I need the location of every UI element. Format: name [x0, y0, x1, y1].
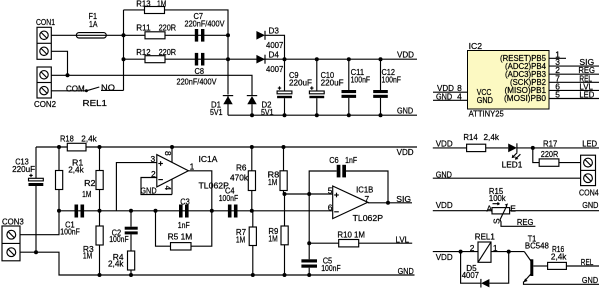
junction GND-C10	[315, 113, 319, 117]
svg-text:100nF: 100nF	[219, 193, 239, 203]
svg-text:IC1B: IC1B	[356, 185, 374, 195]
svg-text:GND: GND	[582, 200, 598, 210]
svg-text:100nF: 100nF	[351, 75, 371, 85]
svg-text:R10 1M: R10 1M	[337, 229, 365, 239]
ic IC2 ATTINY25	[468, 41, 550, 119]
resistor R12	[136, 47, 176, 63]
junction row-R2R3	[98, 209, 102, 213]
wire R16 to REL	[566, 257, 599, 267]
svg-text:LED1: LED1	[502, 160, 523, 170]
svg-text:TL062P: TL062P	[199, 180, 230, 190]
wire R14 to LED	[486, 147, 509, 149]
svg-text:REL1: REL1	[475, 232, 495, 242]
svg-text:R2: R2	[84, 178, 96, 188]
junction C7 node	[226, 33, 230, 37]
junction relay-D5 left	[459, 250, 463, 254]
svg-text:CON1: CON1	[36, 17, 55, 27]
pin 7 PB2 wire REL	[549, 73, 599, 83]
svg-text:100nF: 100nF	[109, 234, 129, 244]
junction C13-CON3pin2	[34, 250, 38, 254]
wire lower VDD rail	[36, 146, 417, 148]
junction LED-R17	[531, 146, 535, 150]
connector CON1	[36, 17, 55, 59]
wire LED to LED net	[517, 147, 599, 149]
svg-text:R5 1M: R5 1M	[168, 232, 193, 242]
svg-text:LED: LED	[579, 90, 594, 100]
resistor R4	[108, 251, 135, 275]
wire CON3 pin1 up to row	[20, 211, 59, 235]
svg-text:IC2: IC2	[469, 41, 483, 51]
zener D2	[247, 89, 274, 118]
resistor R3	[83, 211, 103, 275]
junction row-R6R7	[250, 209, 254, 213]
svg-text:REL: REL	[581, 257, 594, 267]
svg-text:IC1A: IC1A	[199, 154, 218, 164]
svg-text:R14: R14	[463, 132, 478, 142]
resistor R18	[60, 133, 98, 151]
pin 6 PB1 wire LVL	[549, 81, 599, 91]
wire IC1A pin4	[171, 179, 173, 194]
capacitor C9 electrolytic	[277, 59, 312, 115]
svg-text:2: 2	[470, 243, 475, 253]
svg-text:A: A	[487, 204, 493, 214]
svg-text:220uF: 220uF	[12, 164, 35, 174]
wire CON1 pin2 down to neutral	[51, 51, 67, 75]
svg-text:220R: 220R	[159, 22, 177, 32]
junction GND-R9	[283, 273, 287, 277]
svg-text:4007: 4007	[462, 270, 480, 280]
pin 1 PB5 stub	[549, 49, 566, 59]
junction rail-R8	[282, 145, 286, 149]
junction row-C2	[129, 209, 133, 213]
SECTION: power supply top	[34, 0, 417, 117]
svg-text:220uF: 220uF	[289, 78, 312, 88]
resistor R2	[82, 147, 103, 211]
svg-text:REL1: REL1	[83, 98, 108, 108]
svg-text:4007: 4007	[266, 64, 284, 74]
svg-text:VDD: VDD	[397, 147, 414, 157]
svg-text:2,4k: 2,4k	[551, 251, 567, 261]
wire GND row to CON4	[433, 170, 581, 180]
connector CON2	[34, 67, 56, 109]
wire IC1A pin3	[116, 163, 156, 211]
junction GND-C11	[347, 113, 351, 117]
svg-text:D4: D4	[269, 49, 280, 59]
wire IC1B output SIG	[368, 194, 412, 205]
capacitor C12	[373, 59, 401, 115]
svg-text:220R: 220R	[541, 149, 559, 159]
capacitor C2	[109, 211, 138, 251]
svg-text:5: 5	[328, 186, 333, 196]
svg-text:2,4k: 2,4k	[108, 259, 124, 269]
wire VDD pot row	[433, 200, 492, 211]
svg-text:R17: R17	[543, 139, 558, 149]
wire neutral row	[51, 75, 252, 88]
resistor R10 LVL	[309, 229, 412, 247]
diode D3	[256, 26, 283, 51]
svg-text:100nF: 100nF	[382, 75, 402, 85]
wire sensor row	[59, 210, 333, 212]
wire R12 row	[124, 58, 229, 60]
resistor R11	[136, 22, 176, 38]
wire VDD rail	[228, 58, 417, 60]
svg-text:GND: GND	[140, 186, 156, 196]
capacitor C6 feedback	[309, 155, 388, 203]
wire R13 row	[124, 10, 229, 35]
fuse F1	[76, 11, 106, 38]
svg-text:GND: GND	[477, 95, 493, 105]
SECTION: mcu	[433, 41, 599, 119]
capacitor C8	[177, 53, 217, 87]
wire IC1B pin5 row	[284, 193, 333, 195]
relay coil REL1	[470, 232, 498, 263]
svg-text:E: E	[510, 204, 516, 214]
zener D1	[210, 96, 233, 117]
capacitor C11	[342, 59, 371, 115]
svg-text:SIG: SIG	[396, 194, 411, 204]
junction VDD-C11	[347, 57, 351, 61]
SECTION: right column	[433, 132, 599, 287]
svg-text:1M: 1M	[82, 189, 91, 199]
svg-text:100nF: 100nF	[321, 263, 341, 273]
pin 3 PB4 wire SIG	[549, 57, 599, 67]
svg-text:TL062P: TL062P	[353, 213, 384, 223]
svg-text:1: 1	[190, 161, 195, 171]
diode D5 freewheel	[461, 252, 509, 288]
svg-text:5V1: 5V1	[210, 107, 223, 117]
svg-text:1M: 1M	[157, 0, 166, 9]
wire C5 column	[308, 194, 310, 259]
svg-text:220nF/400V: 220nF/400V	[177, 77, 217, 87]
junction GND-D2	[250, 113, 254, 117]
capacitor C7	[185, 11, 225, 42]
junction VDD-C10	[315, 57, 319, 61]
junction rail-IC1A pin8	[170, 145, 174, 149]
svg-text:100nF: 100nF	[60, 226, 80, 236]
svg-text:C8: C8	[195, 66, 205, 76]
junction pin5-C6 tap	[307, 192, 311, 196]
LED LED1	[502, 143, 523, 169]
svg-text:CON2: CON2	[34, 99, 56, 109]
svg-text:CON4: CON4	[579, 188, 599, 198]
junction neutral	[66, 73, 70, 77]
diode D4	[256, 49, 283, 74]
wire D3 to VDD node	[265, 35, 285, 59]
resistor R5 feedback	[156, 211, 212, 250]
capacitor C1	[60, 205, 84, 237]
capacitor C4	[219, 186, 239, 218]
svg-text:1nF: 1nF	[178, 220, 190, 230]
svg-text:NO: NO	[101, 83, 115, 93]
wire IC1A output	[188, 171, 211, 211]
transistor T1 BC548	[523, 233, 549, 282]
wire CON1 pin1 to fuse	[51, 34, 76, 36]
resistor R8	[268, 147, 288, 194]
svg-text:COM: COM	[66, 83, 85, 93]
svg-text:5: 5	[555, 90, 560, 100]
resistor R6	[230, 147, 256, 211]
svg-text:BC548: BC548	[525, 241, 549, 251]
wire IC1A pin8	[171, 147, 173, 162]
svg-text:1nF: 1nF	[345, 155, 357, 165]
svg-text:LVL: LVL	[396, 234, 410, 244]
resistor R17 220R	[533, 148, 581, 166]
capacitor C10 electrolytic	[309, 59, 343, 115]
resistor R9	[268, 194, 288, 275]
capacitor C13 electrolytic	[12, 147, 43, 252]
svg-text:R13: R13	[136, 0, 151, 9]
junction relay-D5 right	[507, 250, 511, 254]
svg-text:GND: GND	[582, 275, 598, 285]
svg-text:1M: 1M	[83, 250, 92, 260]
svg-text:R11: R11	[136, 22, 151, 32]
junction GND-C5	[307, 273, 311, 277]
junction GND-R4	[129, 273, 133, 277]
svg-text:470k: 470k	[230, 172, 249, 182]
junction live-fuse	[122, 33, 126, 37]
resistor R13	[136, 0, 166, 14]
wire pot right to GND	[510, 200, 599, 211]
svg-text:6: 6	[328, 202, 333, 212]
svg-text:R12: R12	[136, 47, 151, 57]
wire GND rail	[228, 114, 417, 116]
wire emitter GND	[524, 275, 600, 285]
svg-text:1M: 1M	[236, 234, 245, 244]
junction rail-R2	[98, 145, 102, 149]
svg-text:GND: GND	[436, 91, 452, 101]
svg-text:VDD: VDD	[436, 139, 453, 149]
pin 5 PB0 wire LED	[549, 90, 599, 100]
wire coil to collector node	[491, 251, 524, 253]
capacitor C3	[178, 196, 190, 230]
SECTION: analog lower	[2, 133, 417, 277]
junction row-output	[210, 209, 214, 213]
svg-text:(MOSI)PB0: (MOSI)PB0	[504, 93, 546, 103]
node live vertical	[123, 10, 125, 91]
node rectifier input vertical	[227, 35, 229, 94]
resistor R1	[56, 147, 85, 211]
resistor R14	[463, 132, 499, 151]
wire IC1A pin2 to GND label	[140, 178, 172, 196]
svg-text:GND: GND	[397, 106, 413, 116]
junction row-R5 left	[154, 209, 158, 213]
junction pin5-R8R9	[283, 192, 287, 196]
svg-text:C6: C6	[329, 155, 339, 165]
junction VDD-C9	[283, 57, 287, 61]
op-amp IC1A	[151, 151, 230, 191]
svg-text:220nF/400V: 220nF/400V	[185, 19, 225, 29]
svg-text:2,4k: 2,4k	[81, 133, 97, 143]
svg-text:100k: 100k	[489, 193, 507, 203]
svg-text:ATTINY25: ATTINY25	[469, 109, 505, 119]
svg-text:VDD: VDD	[397, 49, 414, 59]
wire CON3 pin2 to GND rail	[20, 252, 415, 275]
connector CON3	[2, 216, 24, 260]
wire VDD LED row	[433, 147, 467, 149]
svg-text:VDD: VDD	[436, 252, 453, 262]
svg-text:D3: D3	[269, 26, 280, 36]
junction rail-R1	[57, 145, 61, 149]
svg-text:1M: 1M	[268, 234, 277, 244]
wire R11 row	[124, 34, 229, 36]
junction live-R12	[122, 57, 126, 61]
svg-text:REG: REG	[517, 217, 534, 227]
svg-text:VDD: VDD	[436, 200, 453, 210]
potentiometer R15	[487, 186, 517, 224]
junction GND-R3	[98, 273, 102, 277]
junction row-R1	[57, 209, 61, 213]
junction GND-R7	[251, 273, 255, 277]
svg-text:R18: R18	[60, 133, 74, 143]
wire wiper to REG	[500, 217, 535, 227]
svg-text:C3: C3	[180, 196, 190, 206]
svg-text:LED: LED	[582, 139, 597, 149]
junction LVL row	[307, 241, 311, 245]
svg-text:GND: GND	[436, 170, 452, 180]
svg-text:GND: GND	[398, 266, 414, 276]
svg-text:1A: 1A	[89, 19, 98, 29]
junction GND-C9	[283, 113, 287, 117]
junction rail-R6	[250, 145, 254, 149]
svg-text:2,4k: 2,4k	[484, 132, 500, 142]
resistor R16	[548, 244, 568, 269]
junction C8 node	[226, 57, 230, 61]
wire fuse to live node	[106, 34, 123, 36]
junction GND-C12	[379, 113, 383, 117]
pin 4 GND wire	[433, 91, 468, 101]
svg-text:R6: R6	[236, 162, 247, 172]
pin 8 VCC wire VDD	[433, 83, 468, 93]
svg-text:2,4k: 2,4k	[68, 164, 84, 174]
svg-text:CON3: CON3	[2, 216, 24, 226]
svg-text:220uF: 220uF	[321, 78, 344, 88]
svg-text:1M: 1M	[268, 177, 277, 187]
wire VDD relay row	[433, 252, 478, 263]
resistor R7	[236, 211, 257, 275]
capacitor C5	[301, 256, 340, 275]
wire D1 to GND rail	[227, 104, 229, 115]
relay contact COM-NO REL1	[51, 83, 123, 109]
connector CON4	[579, 155, 599, 197]
svg-text:220R: 220R	[159, 47, 177, 57]
svg-text:4: 4	[457, 91, 462, 101]
junction VDD-C12	[379, 57, 383, 61]
op-amp IC1B	[328, 185, 384, 223]
pin 2 PB3 wire REG	[549, 65, 599, 75]
wire base to R16	[533, 265, 547, 267]
